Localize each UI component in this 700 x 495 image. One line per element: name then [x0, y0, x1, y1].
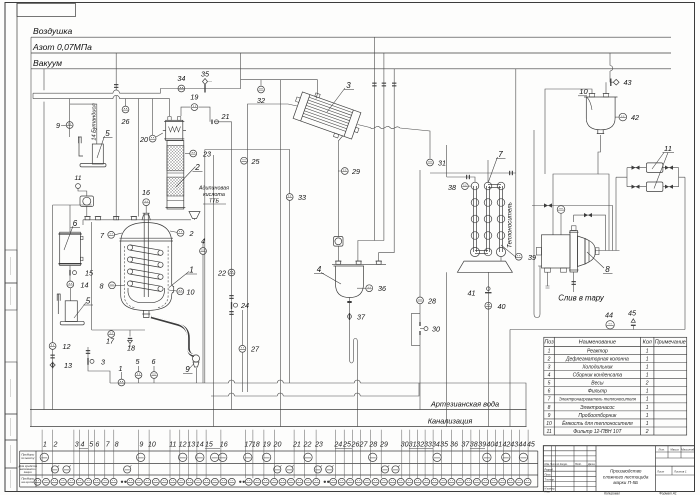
valve 43	[610, 79, 612, 87]
svg-text:2: 2	[194, 163, 200, 172]
wire heater feed y173	[430, 172, 516, 174]
svg-text:7: 7	[548, 397, 551, 403]
svg-text:1: 1	[646, 421, 649, 427]
wire left x91.7 vertical along reactor	[53, 205, 92, 330]
wire vessel4 bottom with valve 37 and U-seal	[350, 298, 358, 427]
strip table grid	[20, 451, 538, 487]
svg-text:38: 38	[448, 183, 456, 192]
svg-text:27: 27	[359, 441, 369, 449]
svg-text:6: 6	[548, 389, 551, 395]
svg-text:26: 26	[121, 117, 130, 126]
svg-text:Поз: Поз	[544, 340, 554, 346]
instrument 14	[67, 281, 74, 288]
wire nitrogen to tank 10 / valve 43	[606, 53, 613, 94]
wire bus2 feeds x152.6 x138.3	[138, 99, 152, 217]
wire reactor manifold	[83, 217, 191, 226]
instrument 16 on shaft	[145, 206, 147, 213]
reactor agitator shaft	[144, 213, 148, 297]
svg-text:41: 41	[494, 441, 502, 449]
svg-text:9: 9	[139, 441, 143, 449]
scale platform 5 upper	[78, 137, 106, 167]
instrument 25	[241, 157, 248, 164]
nozzle x116.2	[114, 217, 119, 220]
wire ticked line L3	[379, 69, 395, 261]
instrument 17	[108, 331, 115, 338]
valve 21	[211, 120, 213, 125]
svg-text:Ёмкость для теплоносителя: Ёмкость для теплоносителя	[562, 420, 633, 427]
svg-text:14: 14	[81, 281, 89, 290]
svg-text:Формат А1: Формат А1	[659, 491, 677, 495]
svg-text:2: 2	[53, 441, 58, 449]
leader equipment 9	[189, 364, 194, 370]
svg-text:3: 3	[101, 358, 105, 367]
svg-text:10: 10	[579, 87, 588, 96]
svg-text:10: 10	[187, 288, 195, 297]
svg-text:29: 29	[351, 167, 360, 176]
svg-text:32: 32	[257, 96, 265, 105]
square pot symbol	[80, 196, 94, 206]
funnel feed	[189, 212, 200, 219]
svg-text:8: 8	[115, 441, 119, 449]
svg-text:Сборник конденсата: Сборник конденсата	[573, 373, 623, 379]
svg-text:16: 16	[220, 441, 228, 449]
wire upper bus y88.5 with instruments 34,35	[160, 53, 317, 94]
svg-text:1: 1	[646, 389, 649, 395]
svg-text:5: 5	[86, 297, 91, 306]
svg-text:Листов 1: Листов 1	[673, 470, 687, 474]
reactor coil	[127, 245, 163, 256]
svg-text:Адипиновая: Адипиновая	[198, 186, 229, 192]
svg-text:1: 1	[646, 373, 649, 379]
svg-text:39: 39	[528, 253, 536, 262]
svg-text:27: 27	[250, 345, 260, 354]
svg-text:24: 24	[240, 301, 249, 310]
svg-text:21: 21	[292, 441, 301, 449]
svg-text:8: 8	[100, 282, 104, 291]
svg-text:Утв.: Утв.	[545, 491, 551, 494]
svg-text:22: 22	[303, 441, 312, 449]
strip group brackets	[79, 448, 485, 450]
svg-text:Разраб.: Разраб.	[545, 468, 554, 471]
svg-text:28: 28	[427, 297, 436, 306]
leader equipment 2	[176, 167, 196, 188]
valve 37	[349, 313, 351, 320]
strip top-row instrument circles	[40, 453, 528, 461]
svg-text:Подп.: Подп.	[575, 463, 582, 466]
svg-text:Слив в тару: Слив в тару	[558, 294, 605, 303]
instrument 34	[178, 85, 185, 92]
instrument 20	[149, 135, 156, 142]
svg-text:13: 13	[64, 361, 72, 370]
svg-text:23: 23	[202, 150, 211, 159]
svg-text:4: 4	[81, 441, 85, 449]
heat exchanger 3	[289, 87, 366, 143]
svg-text:6: 6	[152, 357, 156, 366]
svg-text:Изм Лист: Изм Лист	[545, 463, 557, 466]
nozzle x87.5	[85, 217, 90, 220]
instrument 39	[501, 245, 515, 261]
svg-text:40: 40	[498, 302, 506, 311]
svg-text:28: 28	[368, 441, 377, 449]
wire bus y93	[33, 89, 160, 99]
wire tank 10 left nozzle	[545, 89, 592, 174]
strip bottom-row instrument circles	[34, 478, 531, 485]
svg-text:42: 42	[502, 441, 510, 449]
instrument 19	[191, 104, 198, 111]
sight glass above vessel 4	[334, 237, 343, 247]
svg-text:17: 17	[106, 337, 115, 346]
instrument 12	[49, 343, 56, 350]
valve 41	[485, 292, 492, 294]
svg-text:Лит.: Лит.	[657, 448, 665, 452]
leader equipment 1	[169, 272, 189, 288]
wire x204.8 vertical	[204, 150, 206, 384]
instrument 8	[109, 282, 116, 289]
instrument 10	[177, 288, 184, 295]
strip row labels	[18, 453, 38, 485]
wire HE outlet with break squiggle and instrument 31	[358, 125, 431, 159]
svg-text:24: 24	[333, 441, 342, 449]
svg-text:11: 11	[664, 144, 672, 153]
svg-text:Фильтр 12-ПВН 10Т: Фильтр 12-ПВН 10Т	[573, 429, 622, 435]
instrument 36	[357, 287, 366, 289]
svg-text:8: 8	[548, 405, 551, 411]
svg-text:35: 35	[201, 70, 210, 79]
wire nitrogen drop x116	[115, 53, 117, 217]
tank 10	[584, 93, 618, 133]
svg-text:10: 10	[546, 421, 552, 427]
wire bus2 drop to scale x69.7	[70, 99, 97, 144]
wire right verticals to pump outlet	[595, 174, 624, 251]
svg-text:8: 8	[605, 265, 610, 274]
svg-text:6: 6	[73, 219, 78, 228]
title block	[543, 446, 694, 494]
wire x213.3 vertical	[212, 155, 214, 427]
wire horizontal y149.5	[205, 149, 290, 151]
filter 6	[59, 232, 84, 265]
wire long vertical x534 with U-seal	[534, 130, 542, 318]
svg-text:31: 31	[438, 159, 446, 168]
instrument 7	[108, 231, 115, 238]
wire to filter 6	[69, 205, 71, 281]
svg-text:по месту: по месту	[21, 456, 35, 460]
wire x289.7 vertical with instrument 33	[289, 150, 291, 384]
svg-text:14 Бутандиол: 14 Бутандиол	[92, 103, 98, 141]
svg-text:Электронасос: Электронасос	[580, 405, 615, 411]
svg-text:4: 4	[548, 373, 551, 379]
instrument 42	[615, 116, 619, 118]
svg-text:Холодильник: Холодильник	[581, 365, 613, 371]
wire pump top lines with bowties	[532, 206, 613, 251]
nozzle x98	[96, 217, 101, 220]
instrument 9	[66, 122, 73, 129]
valve 30 with bypass loop	[412, 313, 420, 345]
svg-text:Реактор: Реактор	[587, 348, 608, 354]
svg-text:44: 44	[518, 441, 526, 449]
electro heater 7	[470, 182, 505, 256]
instrument 23	[185, 153, 190, 155]
instrument 4 right of reactor	[202, 242, 204, 383]
wire x242.4 with instrument 27	[241, 310, 243, 392]
valve 13	[52, 362, 54, 368]
svg-text:15: 15	[205, 441, 213, 449]
valve 45	[631, 324, 636, 326]
water line	[30, 409, 527, 411]
dephlegmator condenser head	[163, 117, 186, 141]
svg-text:11: 11	[546, 429, 551, 435]
wire 41/40 drops	[447, 272, 489, 310]
svg-text:5: 5	[89, 441, 93, 449]
svg-text:9: 9	[56, 121, 60, 130]
parts list table	[544, 337, 687, 435]
sampler 9 (probootbornik)	[151, 317, 194, 356]
wire 14 to scale	[69, 288, 71, 301]
svg-text:Артезианская вода: Артезианская вода	[430, 400, 499, 409]
instruments 1 5 6 bottom	[121, 372, 123, 379]
svg-text:Примечание: Примечание	[655, 340, 686, 346]
svg-text:13: 13	[187, 441, 195, 449]
svg-text:Весы: Весы	[591, 381, 604, 387]
wire pump drain sliv	[546, 272, 574, 292]
svg-text:5: 5	[548, 381, 551, 387]
svg-text:16: 16	[142, 188, 150, 197]
net Azot 0,07MPa (nitrogen line)	[31, 52, 671, 54]
wire condenser right to 19/21	[181, 107, 232, 409]
instrument 40	[485, 302, 492, 309]
svg-text:1: 1	[646, 365, 649, 371]
svg-text:5: 5	[105, 129, 110, 138]
svg-text:6: 6	[95, 441, 99, 449]
valve 18	[128, 338, 132, 340]
svg-text:4: 4	[201, 237, 205, 246]
svg-text:Производство: Производство	[610, 469, 642, 474]
svg-text:14: 14	[196, 441, 204, 449]
instrument 2	[177, 229, 184, 236]
svg-text:11: 11	[74, 175, 81, 182]
svg-text:Масштаб: Масштаб	[681, 448, 694, 452]
instrument 44	[606, 321, 614, 329]
wire ticked line L1	[373, 37, 375, 240]
leader equipment 10	[586, 97, 592, 111]
svg-text:25: 25	[251, 157, 261, 166]
svg-text:Пров.: Пров.	[545, 473, 552, 476]
nozzle x133.8	[131, 217, 136, 220]
svg-text:18: 18	[127, 344, 135, 353]
scale 5 lower	[57, 294, 84, 325]
svg-text:№ докум.: № докум.	[557, 463, 568, 466]
svg-text:30: 30	[401, 441, 409, 449]
svg-text:45: 45	[628, 309, 637, 318]
wire bus y98.6	[33, 99, 169, 116]
strip mid-row instrument circles	[51, 465, 399, 473]
svg-text:34: 34	[432, 441, 440, 449]
svg-text:20: 20	[273, 441, 282, 449]
svg-text:1: 1	[43, 441, 47, 449]
svg-text:Масса: Масса	[670, 448, 679, 452]
wire ticked line L2	[358, 53, 384, 261]
svg-text:1: 1	[189, 266, 193, 275]
valve 15	[69, 270, 71, 276]
svg-text:37: 37	[357, 313, 366, 322]
wire left verticals x42.5 x52.6	[44, 69, 53, 410]
svg-text:Пробоотборник: Пробоотборник	[578, 413, 617, 419]
svg-text:20: 20	[139, 135, 148, 144]
svg-text:15: 15	[85, 269, 94, 278]
svg-text:29: 29	[379, 441, 388, 449]
svg-text:кислота: кислота	[203, 192, 225, 198]
svg-text:ТТБ: ТТБ	[209, 199, 220, 205]
svg-text:Кол: Кол	[643, 340, 652, 346]
svg-text:1: 1	[646, 356, 649, 362]
reactor bottom outlet	[142, 311, 150, 318]
filters 11 pair	[624, 163, 685, 330]
sewer line	[30, 426, 527, 428]
svg-text:1: 1	[646, 413, 649, 419]
wire square to manifold	[86, 206, 88, 216]
svg-text:Вакуум: Вакуум	[33, 58, 62, 68]
svg-text:Теплоноситель: Теплоноситель	[507, 202, 514, 248]
svg-text:4: 4	[317, 265, 322, 274]
net Vacuum line	[31, 68, 671, 70]
leader equipment 7	[488, 157, 498, 183]
leader equipment 5 upper	[97, 136, 105, 158]
wire x280 vertical	[279, 80, 281, 427]
leader equipment 5 lower	[74, 303, 86, 319]
svg-text:18: 18	[252, 441, 260, 449]
svg-text:45: 45	[527, 441, 535, 449]
wire bus B y396	[211, 383, 419, 396]
svg-text:41: 41	[468, 289, 476, 298]
svg-text:22: 22	[217, 269, 226, 278]
svg-text:3: 3	[346, 81, 351, 90]
net Vozdushka (air vent line)	[31, 36, 671, 38]
svg-text:марки П-5Б: марки П-5Б	[613, 480, 638, 485]
strip columns	[42, 430, 528, 479]
instrument 32	[260, 80, 262, 86]
svg-text:39: 39	[478, 441, 486, 449]
svg-text:Лист: Лист	[656, 470, 665, 474]
svg-text:34: 34	[177, 74, 185, 83]
svg-text:Наименование: Наименование	[579, 340, 616, 346]
svg-text:1: 1	[646, 397, 649, 403]
instrument 38	[468, 185, 471, 187]
svg-text:33: 33	[424, 441, 432, 449]
pump 8 electro-pump	[536, 226, 599, 272]
svg-text:9: 9	[185, 365, 190, 374]
wire sliv line y331.7 with 44 45	[510, 329, 685, 331]
svg-text:26: 26	[351, 441, 360, 449]
valve 24 on x231.5	[231, 302, 233, 309]
left margin column cells	[5, 250, 17, 492]
svg-text:1: 1	[646, 405, 649, 411]
svg-text:1: 1	[548, 348, 551, 354]
wire left main drop	[30, 37, 32, 426]
svg-text:Дата: Дата	[587, 463, 595, 466]
instrument 22 on x231.5	[228, 269, 235, 276]
svg-text:зации: зации	[23, 470, 32, 474]
svg-text:2: 2	[547, 356, 551, 362]
bottom margin notes	[604, 491, 677, 495]
svg-text:38: 38	[470, 441, 478, 449]
svg-text:Т.контр.: Т.контр.	[545, 479, 555, 482]
svg-text:3: 3	[75, 441, 79, 449]
svg-text:11: 11	[169, 441, 176, 449]
svg-text:сложного пестицида: сложного пестицида	[603, 474, 649, 479]
svg-text:7: 7	[498, 150, 503, 159]
svg-text:35: 35	[440, 441, 448, 449]
svg-text:Фильтр: Фильтр	[588, 389, 607, 395]
wire jacket drain manifold y330	[92, 330, 145, 337]
svg-text:Дефлегматорная колонна: Дефлегматорная колонна	[565, 356, 629, 362]
valve 35	[204, 85, 206, 93]
svg-text:12: 12	[179, 441, 187, 449]
svg-text:Канализация: Канализация	[428, 417, 473, 426]
svg-text:40: 40	[486, 441, 494, 449]
wire drops to bottom lines	[197, 309, 511, 427]
top-left stamp box	[17, 4, 76, 17]
svg-text:30: 30	[432, 325, 440, 334]
svg-text:Копировал: Копировал	[604, 491, 620, 495]
wire heater feeds	[447, 69, 516, 258]
wire x420 vertical with 28 and 30	[419, 170, 421, 410]
reactor 1 vessel	[120, 223, 174, 311]
svg-text:1: 1	[646, 348, 649, 354]
svg-text:19: 19	[263, 441, 271, 449]
wire bus A y383	[110, 383, 526, 427]
svg-text:2: 2	[645, 381, 649, 387]
wire HE inlet from top	[316, 94, 317, 99]
svg-text:36: 36	[378, 284, 386, 293]
leader equipment 6	[64, 226, 73, 250]
svg-text:43: 43	[510, 441, 518, 449]
strip numbers	[43, 441, 535, 449]
svg-text:43: 43	[624, 78, 632, 87]
wire HE bottom drop / instrument 29	[338, 136, 343, 262]
wire x88 with valve 3	[88, 347, 110, 383]
leader equipment 3	[327, 88, 345, 112]
wire HE left to x247.5	[248, 104, 298, 392]
column 2 body with packing	[166, 141, 186, 210]
svg-text:44: 44	[605, 311, 613, 320]
svg-text:Азот 0,07МПа: Азот 0,07МПа	[32, 42, 92, 52]
svg-text:3: 3	[548, 365, 551, 371]
svg-text:36: 36	[450, 441, 458, 449]
svg-text:9: 9	[548, 413, 551, 419]
vessel 4 condensate collector	[332, 264, 386, 297]
svg-text:1: 1	[119, 364, 123, 373]
svg-text:на щите: на щите	[22, 480, 35, 484]
svg-text:Электронагреватель теплоносите: Электронагреватель теплоносителя	[559, 397, 637, 402]
leader equipment 8	[587, 252, 604, 268]
agitator gland	[142, 215, 150, 220]
svg-text:25: 25	[342, 441, 351, 449]
wire tank10 outlet down-left to pump	[553, 135, 601, 235]
leader equipment 11	[652, 153, 668, 189]
svg-text:10: 10	[148, 441, 156, 449]
svg-text:33: 33	[298, 193, 306, 202]
pump instrument circle	[560, 213, 562, 235]
svg-text:19: 19	[190, 93, 198, 102]
svg-text:2: 2	[645, 429, 649, 435]
heater base trapezoid	[457, 261, 512, 272]
svg-text:21: 21	[221, 112, 230, 121]
svg-text:42: 42	[631, 113, 639, 122]
leader equipment 4	[321, 273, 341, 285]
svg-text:23: 23	[314, 441, 323, 449]
svg-text:Воздушка: Воздушка	[33, 26, 72, 36]
instrument 26	[125, 99, 127, 106]
svg-text:12: 12	[63, 342, 71, 351]
